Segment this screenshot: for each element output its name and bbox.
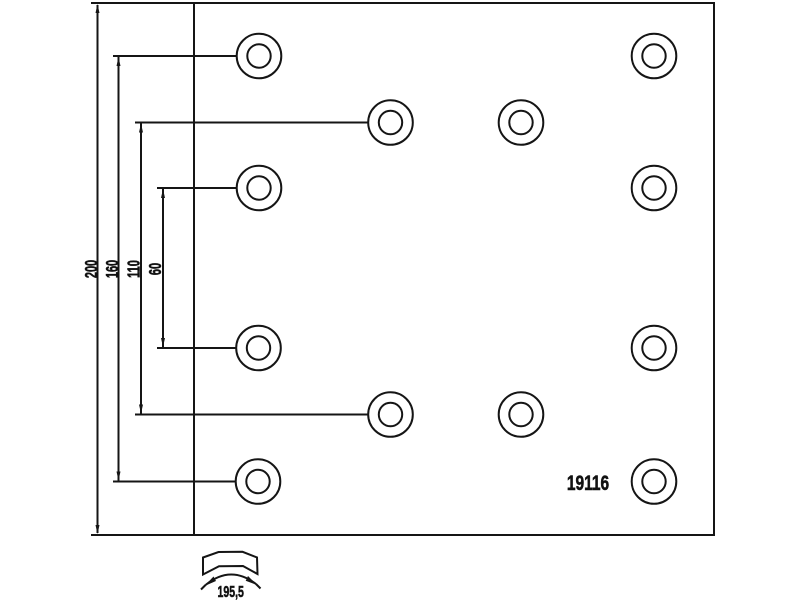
dim 60 vertical line [162,188,164,348]
arrow 110 up [139,124,143,133]
hole R4 left [236,326,281,371]
arrow 200 up [96,4,100,13]
arrow 160 up [117,57,121,66]
hole R5 midright [499,392,544,437]
ref line 160 top [113,55,237,57]
ref line 110 bottom [135,414,369,416]
ref line 60 bottom [157,347,237,349]
dim 160 vertical line [118,56,120,482]
arc arrow right tail [256,584,261,589]
dim 110 vertical line [140,123,142,415]
ref line 160 bottom [113,481,236,483]
arrow 110 down [139,405,143,414]
strip edge line [193,3,195,535]
cross-section band [201,552,261,590]
arrow 200 down [96,525,100,534]
hole R3 right [632,166,677,211]
hole R1 right [632,34,677,79]
arrow 60 down [161,338,165,347]
ref line 110 top [135,122,369,124]
hole R2 midright [499,100,544,145]
svg-text:19116: 19116 [567,471,609,495]
svg-text:160: 160 [104,260,123,278]
hole R5 midleft [368,392,413,437]
arrow 160 down [117,472,121,481]
svg-text:195,5: 195,5 [217,583,244,600]
arc arrow left tail [201,585,206,590]
svg-text:60: 60 [147,263,166,275]
svg-text:110: 110 [125,260,144,278]
hole R6 right [632,459,677,504]
ref line 60 top [157,187,237,189]
hole R6 left [236,459,281,504]
arc arrow right head [246,576,257,585]
hole R1 left (row1) [237,34,282,79]
arc arrow left head [205,577,217,587]
svg-text:200: 200 [82,260,101,278]
width dim arc [206,574,257,585]
hole R2 midleft [368,100,413,145]
dim 200 vertical line [97,5,99,533]
arrow 60 up [161,189,165,198]
plate outline (top, right, bottom edges) [91,3,714,535]
hole R3 left [237,166,282,211]
hole R4 right [632,326,677,371]
